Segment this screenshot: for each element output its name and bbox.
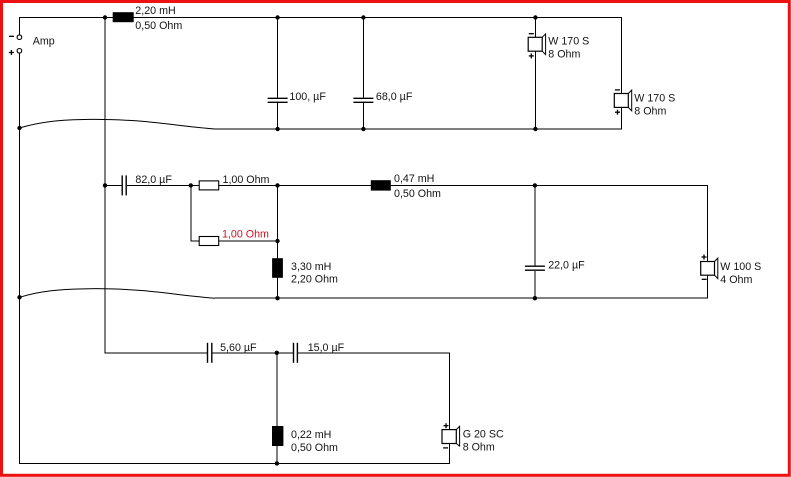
svg-text:2,20 Ohm: 2,20 Ohm: [291, 274, 338, 286]
wire branch capacitor 68uF: [362, 18, 364, 130]
wire branch capacitor 22uF: [534, 185, 536, 298]
capacitor 100uF: [268, 98, 288, 102]
svg-text:82,0 µF: 82,0 µF: [135, 174, 172, 186]
label W 170 S 8 Ohm first: [548, 36, 589, 61]
speaker G 20 SC: [442, 423, 460, 448]
svg-text:100, µF: 100, µF: [289, 91, 326, 103]
svg-text:1,00 Ohm: 1,00 Ohm: [222, 228, 269, 240]
capacitor 22,0uF: [525, 266, 545, 270]
svg-text:5,60 µF: 5,60 µF: [220, 342, 257, 354]
svg-text:15,0 µF: 15,0 µF: [308, 342, 345, 354]
svg-text:Amp: Amp: [33, 36, 55, 48]
svg-text:2,20 mH: 2,20 mH: [135, 5, 175, 17]
junction midrange rail at 22uF branch: [533, 183, 537, 187]
wire left rail from Amp plus terminal down and bottom rail to tweeter: [20, 53, 450, 463]
junction woofer return at left rail: [17, 126, 21, 130]
label W 170 S 8 Ohm second: [634, 93, 675, 118]
svg-text:8 Ohm: 8 Ohm: [463, 442, 495, 454]
value label 3,30 mH 2,20 Ohm: [291, 261, 338, 286]
capacitor 5,60uF: [208, 343, 212, 363]
resistor 1,00 Ohm upper: [199, 181, 219, 190]
svg-text:3,30 mH: 3,30 mH: [291, 261, 331, 273]
wire parallel resistor branch: [191, 185, 278, 241]
wire midrange top rail: [105, 185, 708, 261]
capacitor 68,0uF: [353, 98, 373, 102]
junction top rail at speaker branch: [533, 15, 537, 19]
svg-text:W 100 S: W 100 S: [720, 261, 761, 273]
speaker W 100 S: [701, 255, 718, 280]
junction woofer return at 100uF: [275, 127, 279, 131]
junction midrange rail at resistor branch: [189, 183, 193, 187]
junction midrange return at left rail: [17, 295, 21, 299]
svg-text:8 Ohm: 8 Ohm: [548, 49, 580, 61]
wire top rail from Amp minus terminal to right end: [20, 18, 622, 94]
junction bottom rail at 0,22mH: [275, 461, 279, 465]
inductor 0,47 mH: [371, 180, 391, 190]
svg-text:0,22 mH: 0,22 mH: [291, 429, 331, 441]
wire branch capacitor 100uF: [277, 18, 279, 130]
capacitor 15,0uF: [294, 343, 298, 363]
speaker W 170 S first: [528, 34, 545, 59]
wire vertical branch inductor 3,30mH: [277, 185, 279, 298]
wire midrange bottom rail (straight part): [215, 275, 708, 298]
junction woofer return at speaker branch: [533, 127, 537, 131]
value label 2,20 mH 0,50 Ohm: [135, 5, 182, 32]
junction resistor branch at vertical: [275, 239, 279, 243]
svg-text:W 170 S: W 170 S: [548, 36, 589, 48]
svg-text:0,50 Ohm: 0,50 Ohm: [394, 188, 441, 200]
svg-text:G 20 SC: G 20 SC: [463, 429, 504, 441]
svg-text:8 Ohm: 8 Ohm: [634, 106, 666, 118]
label G 20 SC 8 Ohm: [463, 429, 504, 454]
inductor 3,30 mH: [272, 258, 283, 278]
resistor 1,00 Ohm lower: [199, 237, 219, 246]
junction midrange return at 3,30mH: [275, 296, 279, 300]
junction top rail at 68uF: [361, 15, 365, 19]
junction top rail at main branch: [103, 15, 107, 19]
svg-text:4 Ohm: 4 Ohm: [720, 274, 752, 286]
speaker W 170 S second: [614, 90, 631, 115]
svg-text:W 170 S: W 170 S: [634, 93, 675, 105]
inductor 0,22 mH: [272, 426, 283, 446]
junction midrange rail at main branch: [103, 183, 107, 187]
wire wavy return of woofer section: [20, 119, 216, 129]
svg-text:1,00 Ohm: 1,00 Ohm: [223, 174, 270, 186]
capacitor 82,0uF: [122, 175, 126, 195]
value label 0,47 mH 0,50 Ohm: [394, 173, 441, 200]
junction midrange return at 22uF: [533, 296, 537, 300]
svg-text:68,0 µF: 68,0 µF: [376, 91, 413, 103]
wire branch speaker W170S first: [534, 18, 536, 130]
wire main vertical branch and tweeter section top rail: [105, 18, 450, 430]
inductor 2,20 mH: [113, 12, 134, 22]
junction midrange rail after resistor: [275, 183, 279, 187]
amplifier Amp terminals: [9, 35, 22, 55]
svg-text:0,47 mH: 0,47 mH: [394, 173, 434, 185]
junction woofer return at 68uF: [361, 127, 365, 131]
label W 100 S 4 Ohm: [720, 261, 761, 286]
junction tweeter rail at 0,22mH branch: [275, 351, 279, 355]
svg-text:22,0 µF: 22,0 µF: [548, 259, 585, 271]
wire branch inductor 0,22mH: [276, 353, 278, 464]
junction top rail at 100uF: [275, 15, 279, 19]
wire wavy return of midrange section: [20, 289, 216, 299]
svg-text:0,50 Ohm: 0,50 Ohm: [135, 20, 182, 32]
svg-text:0,50 Ohm: 0,50 Ohm: [291, 442, 338, 454]
value label 0,22 mH 0,50 Ohm: [291, 429, 338, 454]
wire bottom rail of woofer section (straight part): [215, 107, 622, 129]
